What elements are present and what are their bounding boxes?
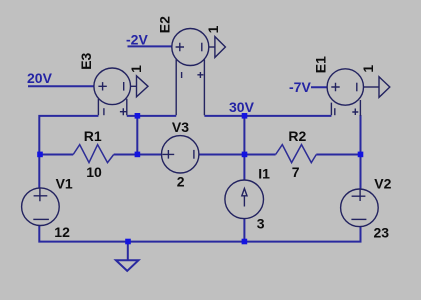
svg-text:V2: V2 [374,175,391,191]
svg-text:7: 7 [292,164,300,180]
svg-text:V1: V1 [56,175,73,191]
svg-text:E2: E2 [157,16,173,33]
svg-text:I1: I1 [258,166,270,182]
svg-text:E1: E1 [313,56,329,73]
svg-text:2: 2 [177,174,185,190]
svg-text:1: 1 [360,65,376,73]
svg-text:3: 3 [257,215,265,231]
svg-text:20V: 20V [27,70,53,86]
svg-text:12: 12 [54,224,70,240]
svg-text:R2: R2 [288,128,306,144]
svg-text:-2V: -2V [126,31,148,47]
svg-text:1: 1 [205,25,221,33]
svg-text:1: 1 [128,65,144,73]
svg-text:-7V: -7V [289,79,311,95]
svg-text:30V: 30V [229,99,255,115]
svg-text:E3: E3 [78,52,94,69]
svg-text:23: 23 [374,225,390,241]
svg-text:10: 10 [86,164,102,180]
svg-text:V3: V3 [172,119,189,135]
svg-text:R1: R1 [84,128,102,144]
